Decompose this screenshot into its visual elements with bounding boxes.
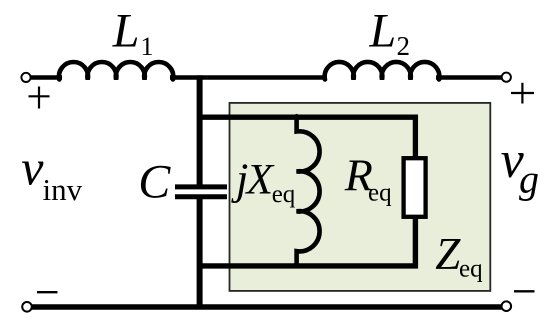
wire: center vertical below capacitor to bottom rail	[197, 198, 203, 309]
terminal: top-left open circle	[21, 73, 30, 82]
terminal: top-right open circle	[502, 73, 511, 82]
label L2	[369, 5, 411, 62]
wire: top rail between L1 and L2 (through center node)	[170, 75, 327, 79]
wire: top rail from L2 to right terminal	[436, 75, 502, 79]
terminal: bottom-right open circle	[502, 301, 512, 311]
polarity - (right)	[514, 290, 535, 292]
inductor L1	[59, 62, 173, 79]
node: center junction vertical wire (upper, above capacitor)	[197, 75, 203, 185]
equivalent-impedance box Zeq (shaded region)	[230, 103, 491, 291]
polarity + (right)	[511, 83, 534, 104]
label jXeq	[231, 153, 296, 208]
svg-text:eq: eq	[368, 179, 392, 206]
polarity - (left)	[37, 291, 58, 293]
svg-text:eq: eq	[272, 181, 296, 208]
svg-text:eq: eq	[459, 255, 483, 282]
svg-text:L: L	[369, 5, 397, 58]
label Req	[344, 150, 392, 207]
resistor Req (rectangle body)	[404, 158, 426, 217]
svg-text:Z: Z	[435, 229, 461, 279]
capacitor C (top plate)	[175, 184, 227, 189]
wire: bottom rail	[32, 304, 502, 309]
svg-text:inv: inv	[43, 172, 83, 207]
label Zeq	[435, 229, 483, 283]
svg-text:L: L	[112, 5, 140, 58]
svg-text:1: 1	[141, 32, 154, 61]
terminal: bottom-left open circle	[22, 302, 32, 312]
svg-text:g: g	[519, 157, 539, 202]
wire: inner bottom rail to Req branch	[200, 217, 416, 266]
capacitor C (bottom plate)	[175, 194, 227, 199]
label L1	[112, 5, 154, 62]
label v_inv	[21, 140, 82, 207]
svg-text:v: v	[21, 140, 44, 196]
label v_g	[501, 132, 539, 202]
svg-text:C: C	[138, 156, 171, 209]
svg-text:X: X	[245, 156, 275, 204]
wire: top rail from left terminal to L1	[31, 75, 63, 79]
polarity + (left)	[29, 87, 50, 109]
wire: inner top rail to Req branch	[200, 117, 416, 158]
inductor L2	[325, 62, 440, 80]
svg-text:2: 2	[397, 31, 411, 61]
inductor jXeq (vertical coil)	[297, 116, 320, 266]
